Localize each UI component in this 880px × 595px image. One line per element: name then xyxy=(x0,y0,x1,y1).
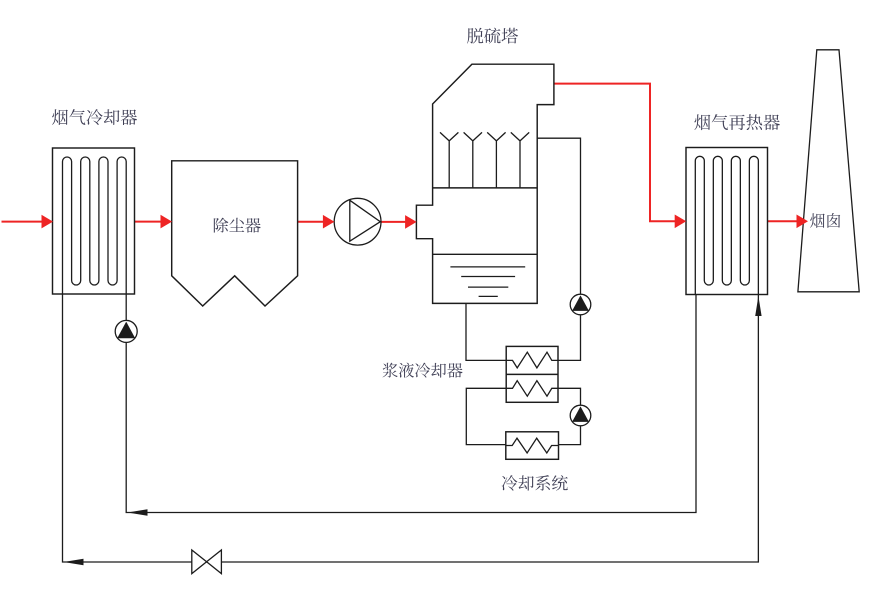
red arrow into tower inlet xyxy=(405,215,417,229)
label: flue gas cooler xyxy=(52,109,137,125)
pipe: slurry cooler middle cell left down to cooling system box left xyxy=(466,388,506,444)
vessel: desulfurization tower outline xyxy=(416,64,554,303)
pipe: cooler left tail down, bottom line through valve, up to reheater right tail xyxy=(63,294,759,562)
valve on bottom water line xyxy=(192,550,222,574)
pump P3: coolant pump xyxy=(570,405,591,426)
black arrow left on middle return line xyxy=(128,509,148,515)
reheater serpentine coil xyxy=(695,156,758,294)
heat exchanger: flue gas reheater box xyxy=(686,148,768,295)
red arrow into stack xyxy=(797,215,809,229)
red arrow into cooler xyxy=(42,215,54,229)
label: stack xyxy=(810,213,840,228)
fan rotor triangle xyxy=(350,200,381,241)
red arrow into fan xyxy=(323,215,335,229)
label: cooling system xyxy=(502,475,568,491)
label: desulfurization tower xyxy=(467,28,518,44)
pump P1: cooler water pump xyxy=(115,320,137,342)
pipe: tower recirculation line down through slurry pump to slurry cooler upper cell right xyxy=(537,138,580,360)
red flue gas line: inlet to cooler xyxy=(2,221,44,223)
tower slurry tank top line xyxy=(433,253,538,255)
red flue gas line: fan to tower inlet xyxy=(381,221,408,223)
heat exchanger: cooling system box xyxy=(506,432,559,460)
black arrow left on bottom water line xyxy=(64,559,84,565)
red arrow into reheater xyxy=(675,215,687,229)
heat exchanger: flue gas cooler box xyxy=(53,148,135,294)
label: slurry cooler xyxy=(383,363,463,378)
vessel: dust remover (ESP) xyxy=(172,161,298,306)
slurry cooler lower cell zigzag xyxy=(506,381,558,397)
black arrow up into reheater right tail xyxy=(755,296,761,316)
flue gas cooler serpentine coil xyxy=(63,157,127,294)
pump P2: slurry recirculation pump xyxy=(570,294,591,315)
label: dust remover xyxy=(214,218,261,233)
red flue gas line: dust remover to fan xyxy=(298,221,326,223)
pipe: cooler right tail down through pump, middle return line, up to reheater left tail xyxy=(126,294,696,513)
pipe: tower tank drain to slurry cooler upper cell xyxy=(466,303,506,360)
red flue gas line: reheater to stack xyxy=(768,220,798,222)
slurry cooler upper cell zigzag xyxy=(506,352,558,368)
spray nozzles xyxy=(440,132,529,188)
cooling system zigzag xyxy=(506,438,559,453)
heat exchanger: slurry cooler two-cell box xyxy=(506,346,558,402)
red flue gas line: tower outlet to reheater xyxy=(554,84,677,222)
red flue gas line: cooler to dust remover xyxy=(135,221,164,223)
fan: booster fan circle xyxy=(334,198,381,245)
red arrow into dust remover xyxy=(161,215,173,229)
label: flue gas reheater xyxy=(694,114,779,130)
vessel: stack (chimney) xyxy=(798,50,859,292)
tank liquid level lines xyxy=(450,267,525,297)
pipe: slurry cooler middle cell right down through coolant pump to cooling system box right xyxy=(558,388,581,444)
tower spray header line xyxy=(433,187,538,189)
